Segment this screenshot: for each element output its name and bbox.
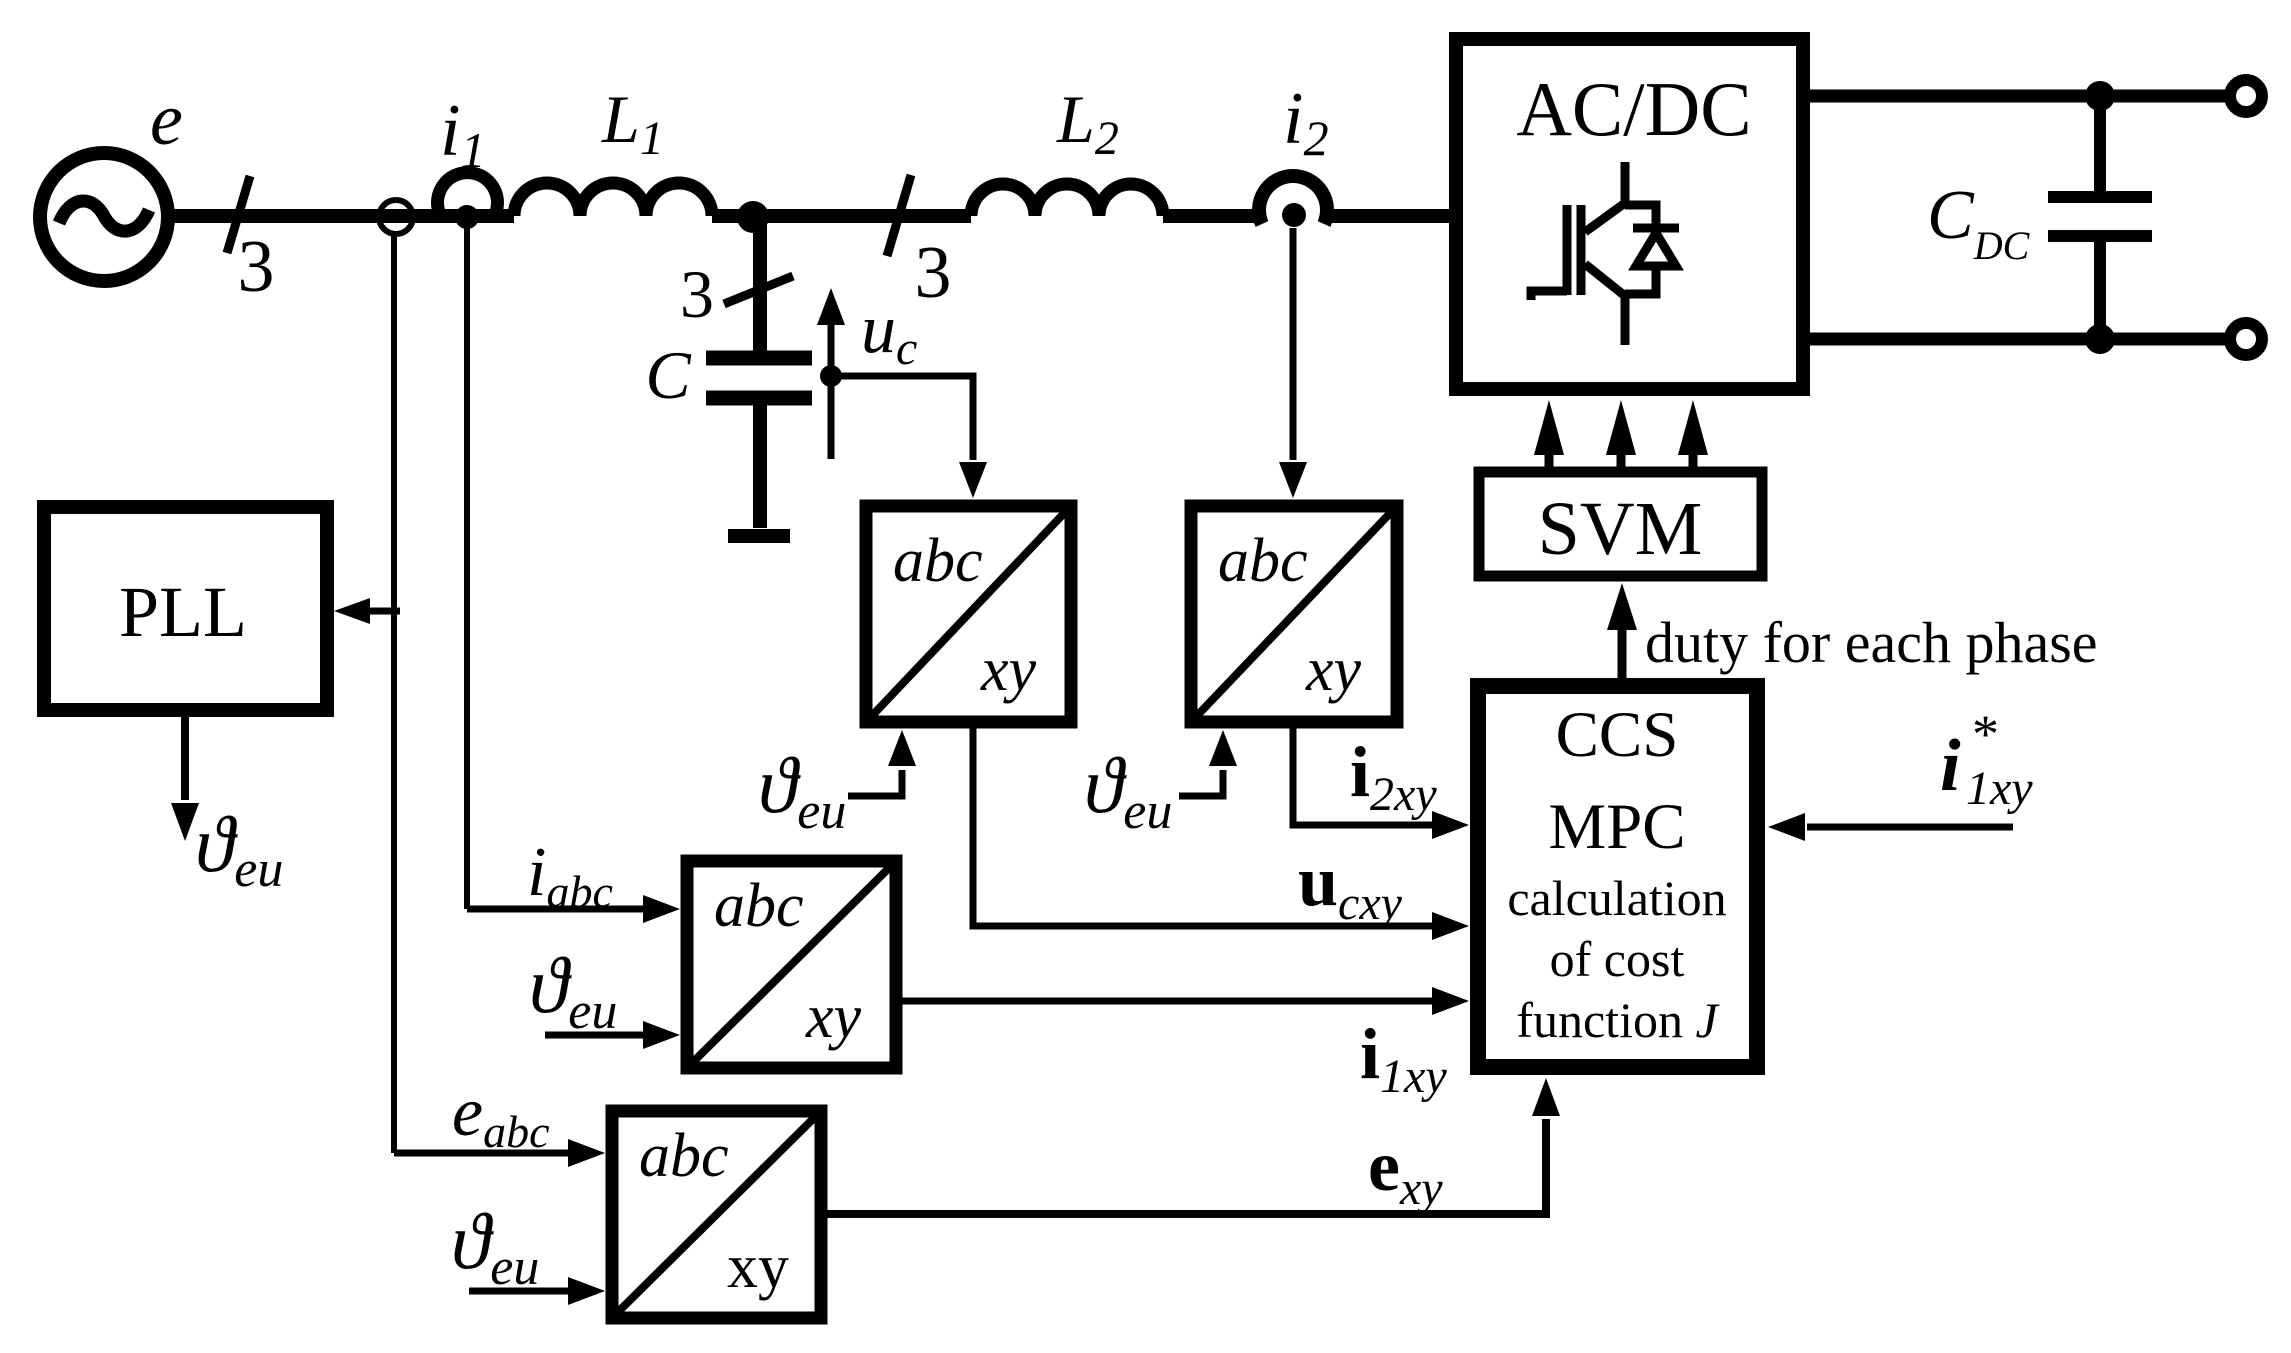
svg-text:*: * xyxy=(1972,704,1999,764)
capacitor C_DC xyxy=(2048,96,2152,339)
block PLL xyxy=(44,507,327,710)
svg-text:of cost: of cost xyxy=(1550,931,1685,987)
wire main bus middle xyxy=(712,209,971,223)
node DC+ xyxy=(2085,81,2115,111)
wire u_c to abc/xy1 xyxy=(831,376,973,460)
block SVM xyxy=(1479,472,1762,576)
svg-text:abc: abc xyxy=(714,872,804,940)
svg-text:xy: xy xyxy=(727,1233,789,1301)
wire e_xy output xyxy=(821,1119,1546,1214)
svg-text:xy: xy xyxy=(980,636,1037,704)
wire main bus right xyxy=(1163,209,1449,223)
svg-text:e: e xyxy=(150,79,183,161)
svg-text:3: 3 xyxy=(238,226,275,308)
terminal DC+ xyxy=(2230,80,2262,112)
node DC- xyxy=(2085,324,2115,354)
transform block abc/xy 1 (u_c) xyxy=(866,506,1071,722)
svg-text:abc: abc xyxy=(639,1122,729,1190)
svg-text:C: C xyxy=(645,337,691,413)
transform block abc/xy 2 (i2) xyxy=(1191,506,1397,722)
wire e tap to PLL xyxy=(368,608,400,615)
wire DC top xyxy=(1810,90,2232,103)
theta_eu arrow into block 3 xyxy=(545,1032,643,1039)
wire i_abc into block 3 xyxy=(467,906,643,913)
node junction (filter tap) xyxy=(737,201,769,233)
converter AC/DC xyxy=(1456,39,1803,389)
wire i_1xy output xyxy=(896,998,1432,1005)
block CCS MPC xyxy=(1478,686,1757,1067)
capacitor C xyxy=(706,358,812,528)
svg-text:AC/DC: AC/DC xyxy=(1516,66,1751,152)
transform block abc/xy 4 (e_abc) xyxy=(612,1111,821,1318)
svg-text:3: 3 xyxy=(680,256,714,332)
slash 3 (capacitor branch) xyxy=(724,276,793,304)
u_c measurement arrow xyxy=(817,288,845,459)
slash 3 (middle) xyxy=(887,175,911,256)
wire u_cxy output xyxy=(973,728,1432,926)
svg-text:PLL: PLL xyxy=(119,572,247,652)
slash 3 (source side) xyxy=(227,176,250,253)
svg-text:calculation: calculation xyxy=(1507,870,1726,926)
current sensor i1 (loop + dot) xyxy=(438,173,498,212)
svg-text:MPC: MPC xyxy=(1548,791,1685,863)
svg-text:1xy: 1xy xyxy=(1966,762,2033,815)
wire i_2xy output xyxy=(1293,728,1432,825)
theta_eu arrow into block 2 xyxy=(1179,770,1223,796)
theta_eu arrow into block 1 xyxy=(848,770,902,796)
IGBT with diode xyxy=(1531,162,1679,345)
wire e_abc vertical xyxy=(391,234,397,1153)
wire PLL output theta_eu xyxy=(181,717,189,800)
svg-text:abc: abc xyxy=(1218,527,1308,595)
wire i_abc vertical xyxy=(464,228,470,909)
wire i2 to abc/xy2 xyxy=(1290,228,1297,460)
svg-text:CCS: CCS xyxy=(1556,699,1679,771)
svg-text:function J: function J xyxy=(1516,992,1720,1048)
wire e_abc into block 4 xyxy=(394,1150,568,1157)
wire i*_1xy reference input xyxy=(1807,824,2013,831)
ground bar xyxy=(728,529,790,543)
theta_eu arrow into block 4 xyxy=(469,1288,568,1295)
svg-text:duty for each phase: duty for each phase xyxy=(1645,610,2098,675)
svg-text:xy: xy xyxy=(805,983,862,1051)
wire SVM to AC/DC (3 gate arrows) xyxy=(1534,400,1708,467)
current sensor i2 (loop + dot) xyxy=(1259,176,1327,224)
svg-text:i: i xyxy=(1940,725,1961,807)
inductor L2 xyxy=(971,184,1163,216)
svg-text:abc: abc xyxy=(893,527,983,595)
terminal DC- xyxy=(2230,323,2262,355)
wire duty CCS to SVM xyxy=(1618,628,1627,678)
svg-text:3: 3 xyxy=(915,232,952,314)
wire capacitor branch xyxy=(753,217,767,351)
wire main bus left xyxy=(168,209,514,223)
inductor L1 xyxy=(514,183,712,216)
wire DC bottom xyxy=(1810,333,2232,346)
svg-text:xy: xy xyxy=(1305,636,1362,704)
node e tap (open circle) xyxy=(379,200,413,234)
transform block abc/xy 3 (i_abc) xyxy=(687,861,896,1068)
svg-text:SVM: SVM xyxy=(1538,487,1703,571)
AC source e xyxy=(40,153,168,281)
